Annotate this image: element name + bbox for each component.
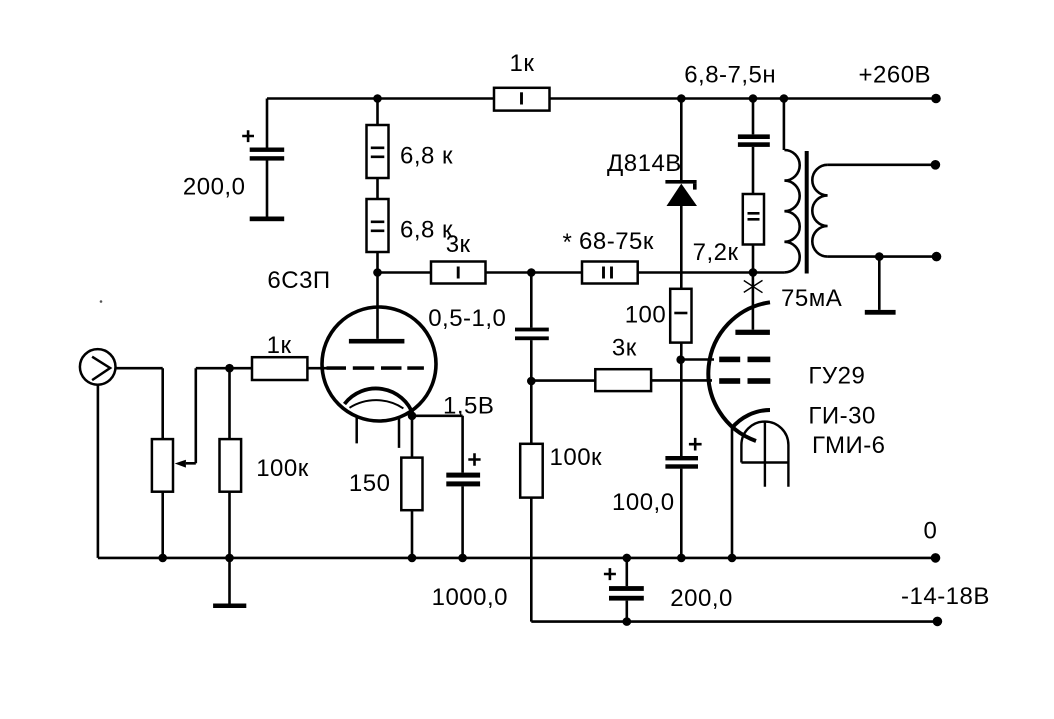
node screen grid junction [676,355,685,364]
wire screen row [378,271,785,274]
wire cathode to 150 [411,416,414,558]
node anode 6S3P junction [373,268,382,277]
svg-text:3к: 3к [612,335,637,362]
svg-text:7,2к: 7,2к [693,239,739,266]
control grid dashes GU29 [719,378,740,384]
resistor 1k top [494,88,550,111]
svg-text:ГМИ-6: ГМИ-6 [812,432,886,459]
svg-text:ГУ29: ГУ29 [808,363,865,390]
svg-text:Д814В: Д814В [607,150,682,177]
cathode arc GU29 [732,410,771,429]
wire left branch to C 200,0 [266,99,269,217]
ground secondary [878,257,881,310]
wire 100k#1 [228,368,231,558]
heater dome 6S3P [350,400,404,408]
svg-text:0,5-1,0: 0,5-1,0 [428,305,506,332]
wire grid row [531,379,712,382]
node cathode junction [408,412,417,421]
screen grid dashes GU29 [719,357,740,363]
capacitor 200,0 bottom [625,558,628,622]
ground chassis stub [228,558,231,604]
svg-text:150: 150 [349,470,391,497]
X mark current measure [744,280,763,292]
svg-text:-14-18В: -14-18В [901,583,990,610]
wire top rail +260V [267,97,936,100]
anode bar 6S3P [349,339,405,344]
svg-text:200,0: 200,0 [183,174,246,201]
node on rail at 6.8k chain [373,94,382,103]
resistor 68-75k [582,262,638,284]
potentiometer [152,439,173,492]
node grid node [225,364,234,373]
node secondary ground junction [875,252,884,261]
resistor 150 [401,458,422,511]
resistor 1k grid stopper [252,357,307,380]
wire to bypass cap [412,416,463,558]
node dots on 0 rail [158,554,167,563]
wire secondary bottom [828,255,937,258]
resistor 7,2k [743,194,764,245]
capacitor 100,0 [665,456,698,460]
svg-text:100к: 100к [256,455,309,482]
svg-text:6,8 к: 6,8 к [400,143,453,170]
wire cathode lead GU29 [731,427,734,558]
transformer secondary [812,165,827,257]
capacitor C 200,0 top-left [250,148,285,152]
zener diode D814V [665,180,696,184]
wire wiper riser [186,368,252,463]
resistor 100k #1 [220,439,242,492]
node screen row right [749,268,758,277]
capacitor 1,5V bypass [446,473,480,478]
svg-text:*: * [563,229,573,256]
svg-text:1000,0: 1000,0 [432,584,508,611]
svg-text:1,5В: 1,5В [443,393,494,420]
svg-text:+260В: +260В [859,62,932,89]
svg-text:200,0: 200,0 [670,585,733,612]
svg-text:6С3П: 6С3П [267,267,330,294]
svg-text:100,0: 100,0 [612,489,675,516]
zener D814V branch wire [680,99,683,558]
wire screen grid stub [681,358,714,361]
resistor 3k #2 [595,369,651,391]
ground chassis bar under C200,0 [250,217,285,222]
wire grid 6S3P [307,367,327,370]
node coupling cap junction [527,268,536,277]
svg-text:75мА: 75мА [781,285,842,312]
wire pot bottom [161,492,164,558]
transformer primary [783,99,786,151]
grid dashes 6S3P [327,366,347,370]
node terminal +260V [931,94,941,104]
connector input [80,349,116,385]
wiper arrow [175,460,186,468]
node rail zener [677,94,686,103]
resistor 3k #1 [431,262,486,284]
wire grid leak [530,381,533,621]
resistor 100 [670,289,691,343]
node grid junction [527,377,536,386]
svg-text:0: 0 [924,517,938,544]
transformer core [805,151,809,274]
resistor 100k #2 [520,444,543,498]
svg-text:1к: 1к [267,332,292,359]
wire anode GU29 [752,272,755,329]
resistor 6,8k #2 [367,199,389,252]
heater GU29 [741,421,788,486]
svg-text:3к: 3к [446,231,471,258]
resistor 6,8k #1 [367,125,389,178]
anode bar GU29 [735,330,770,335]
wire lower rail [531,620,937,623]
capacitor 6,8-7,5n [752,99,755,273]
tube GU29 envelope arc [708,302,770,441]
svg-text:100к: 100к [550,444,603,471]
svg-text:1к: 1к [510,50,535,77]
speck artifact [100,300,103,303]
wire coupling cap branch [530,273,533,382]
svg-text:68-75к: 68-75к [579,228,654,255]
cathode arc 6S3P [345,388,414,415]
wire connector down [97,385,100,558]
wire 6.8k chain [376,99,379,339]
tube 6S3P envelope [322,307,436,421]
wire connector to pot [116,368,163,439]
svg-text:100: 100 [625,302,667,329]
svg-text:ГИ-30: ГИ-30 [808,403,875,430]
capacitor 0,5-1,0 [515,328,549,332]
svg-text:6,8-7,5н: 6,8-7,5н [684,62,776,89]
heater pins 6S3P [357,416,399,448]
wire secondary top [828,164,936,167]
wire 0 rail [98,557,936,560]
